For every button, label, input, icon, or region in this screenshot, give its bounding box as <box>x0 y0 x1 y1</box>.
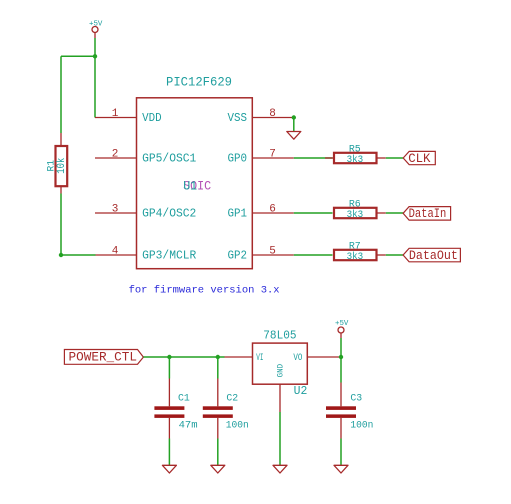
svg-text:GP2: GP2 <box>228 248 248 262</box>
svg-text:VDD: VDD <box>142 111 162 125</box>
svg-text:47m: 47m <box>179 419 198 431</box>
svg-text:GND: GND <box>276 364 285 378</box>
wire down to pin 1 VDD <box>94 56 96 117</box>
wire POWER_CTL rail <box>143 356 224 358</box>
svg-text:100n: 100n <box>226 419 249 431</box>
pin 4 GP3/MCLR <box>96 246 197 263</box>
svg-text:C3: C3 <box>350 392 362 404</box>
hierarchical label POWER_CTL <box>64 350 143 365</box>
resistor R1 <box>46 133 69 194</box>
svg-text:CLK: CLK <box>408 152 431 166</box>
svg-text:C1: C1 <box>178 392 190 404</box>
wire down to R1 top <box>60 56 62 133</box>
svg-text:4: 4 <box>112 246 119 258</box>
wire pin7 to R5 <box>294 157 333 159</box>
resistor R6 <box>334 198 386 220</box>
svg-text:3k3: 3k3 <box>347 209 364 221</box>
svg-text:for firmware version 3.x: for firmware version 3.x <box>129 284 280 296</box>
op-amp U1 PIC12F629 body <box>137 74 253 268</box>
wire junction at C2 <box>216 355 220 359</box>
pin 5 GP2 <box>228 246 294 263</box>
ground (VSS) <box>287 132 301 140</box>
capacitor C3 <box>326 357 373 439</box>
pin 6 GP1 <box>228 204 294 221</box>
wire junction at +5V branch <box>93 54 97 58</box>
wire R7 to DataOut label <box>386 254 403 256</box>
wire junction at VSS <box>292 115 296 119</box>
capacitor C2 <box>203 357 249 439</box>
svg-text:6: 6 <box>269 204 276 216</box>
wire C1 to ground <box>168 439 170 466</box>
svg-text:GP4/OSC2: GP4/OSC2 <box>142 206 196 220</box>
svg-text:GP0: GP0 <box>228 151 248 165</box>
capacitor C1 <box>154 357 197 439</box>
svg-text:3k3: 3k3 <box>347 251 364 263</box>
svg-text:5: 5 <box>269 246 276 258</box>
svg-text:C2: C2 <box>226 392 238 404</box>
power symbol +5V (regulator output) <box>335 320 349 338</box>
svg-text:POWER_CTL: POWER_CTL <box>69 350 138 364</box>
svg-text:VSS: VSS <box>228 111 248 125</box>
wire C2 to ground <box>217 439 219 466</box>
hierarchical label DataIn <box>403 207 451 221</box>
wire junction at R1 / pin 4 <box>59 253 63 257</box>
wire U2 GND to ground <box>279 412 281 465</box>
pin 8 VSS <box>228 108 294 125</box>
wire R1 bottom to junction <box>60 194 62 256</box>
svg-text:U2: U2 <box>294 384 308 398</box>
svg-text:100n: 100n <box>350 419 373 431</box>
wire R5 to CLK label <box>386 157 403 159</box>
wire R6 to DataIn label <box>386 212 403 214</box>
svg-text:10k: 10k <box>56 157 68 173</box>
svg-text:8: 8 <box>269 108 276 120</box>
wire from +5V down to junction <box>94 38 96 56</box>
ground (U2) <box>273 465 287 473</box>
wire C3 to ground <box>340 439 342 466</box>
svg-text:GP5/OSC1: GP5/OSC1 <box>142 151 196 165</box>
svg-text:3: 3 <box>112 204 119 216</box>
svg-text:DataOut: DataOut <box>409 249 458 263</box>
pin 7 GP0 <box>228 149 294 166</box>
power symbol +5V (top) <box>89 20 103 38</box>
wire junction at C1 <box>167 355 171 359</box>
svg-text:VI: VI <box>256 352 263 364</box>
wire pin6 to R6 <box>294 212 333 214</box>
svg-text:78L05: 78L05 <box>263 328 296 342</box>
svg-text:VO: VO <box>293 352 302 364</box>
pin 1 VDD <box>95 108 162 125</box>
svg-text:GP3/MCLR: GP3/MCLR <box>142 248 196 262</box>
svg-text:GP1: GP1 <box>228 206 248 220</box>
wire junction to pin 4 <box>61 254 96 256</box>
pin 2 GP5/OSC1 <box>95 149 196 166</box>
svg-text:DataIn: DataIn <box>409 207 447 221</box>
hierarchical label DataOut <box>403 248 460 263</box>
regulator U2 78L05 <box>225 328 340 412</box>
svg-text:U1: U1 <box>183 178 197 193</box>
svg-text:PIC12F629: PIC12F629 <box>166 74 232 89</box>
resistor R5 <box>325 143 386 165</box>
resistor R7 <box>334 240 386 262</box>
wire horizontal to R1 branch <box>61 55 95 57</box>
ground (C3) <box>334 465 348 473</box>
hierarchical label CLK <box>403 151 435 165</box>
svg-text:1: 1 <box>112 108 119 120</box>
wire pin5 to R7 <box>294 254 333 256</box>
pin 3 GP4/OSC2 <box>95 204 196 221</box>
ground (C2) <box>211 465 225 473</box>
wire +5V to VO junction <box>340 338 342 357</box>
svg-text:7: 7 <box>269 149 276 161</box>
wire junction at VO <box>339 355 343 359</box>
svg-text:3k3: 3k3 <box>347 154 364 166</box>
svg-text:2: 2 <box>112 149 119 161</box>
wire VSS to ground <box>293 118 295 132</box>
ground (C1) <box>162 465 176 473</box>
